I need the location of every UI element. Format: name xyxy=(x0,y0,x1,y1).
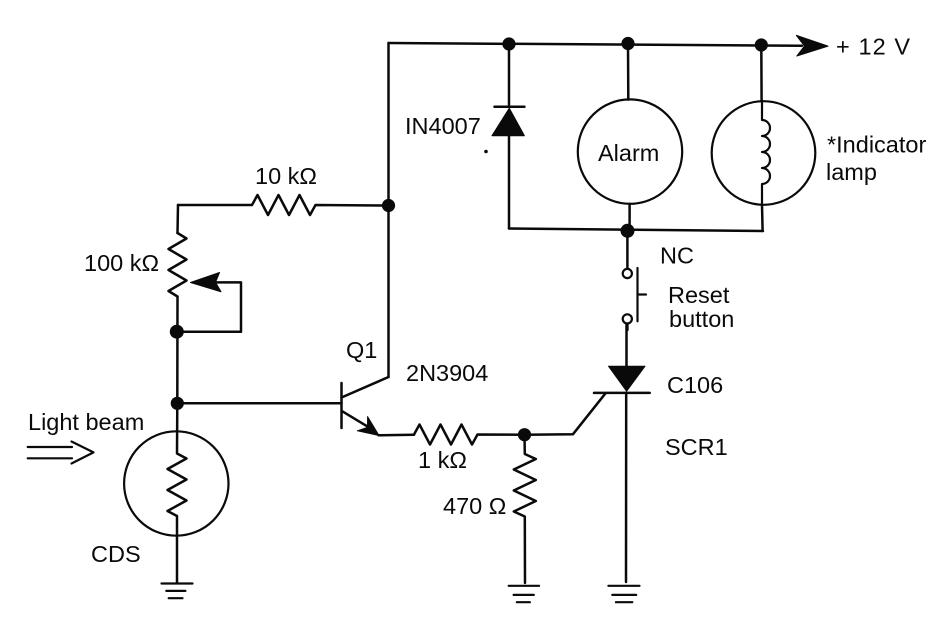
switch reset button xyxy=(626,237,629,269)
node pot bottom junction xyxy=(170,325,184,339)
svg-text:C106: C106 xyxy=(667,372,723,398)
transistor Q1 xyxy=(340,383,343,428)
wire bottom rail xyxy=(509,229,763,232)
node base junction xyxy=(171,397,184,410)
SCR1 C106 xyxy=(625,324,628,368)
node bottom rail junction xyxy=(621,224,635,238)
potentiometer wiper arrow xyxy=(191,273,222,292)
power arrow +12V xyxy=(796,35,828,56)
svg-text:Light beam: Light beam xyxy=(28,409,144,435)
svg-text:10 kΩ: 10 kΩ xyxy=(255,163,317,189)
wire base xyxy=(177,402,341,405)
wire gate xyxy=(525,393,606,435)
wire left column top xyxy=(176,205,179,233)
svg-text:button: button xyxy=(669,306,734,332)
alarm circle xyxy=(578,99,682,203)
ground under 470 xyxy=(509,586,539,602)
diode IN4007 xyxy=(508,44,511,107)
resistor R 10k xyxy=(178,195,389,215)
svg-text:2N3904: 2N3904 xyxy=(406,360,488,386)
svg-text:*Indicator: *Indicator xyxy=(827,132,926,158)
wire emitter to 1k xyxy=(379,434,415,437)
node diode top xyxy=(502,37,515,50)
svg-text:+ 12 V: + 12 V xyxy=(836,34,911,60)
wire main vertical (collector riser) xyxy=(387,43,390,377)
wire left column mid xyxy=(176,297,179,404)
svg-text:470 Ω: 470 Ω xyxy=(443,493,506,519)
svg-text:lamp: lamp xyxy=(826,159,877,185)
speck artifact xyxy=(484,150,488,154)
photocell internal resistor xyxy=(168,403,187,583)
node junction 10k/collector xyxy=(382,199,395,212)
resistor R 470 xyxy=(514,435,536,583)
wire lamp top xyxy=(760,45,763,101)
svg-text:1 kΩ: 1 kΩ xyxy=(418,447,467,473)
wire lamp bottom xyxy=(761,205,764,231)
potentiometer R 100k xyxy=(169,233,187,297)
light beam arrow xyxy=(28,442,94,464)
lamp filament coil xyxy=(762,101,770,204)
svg-text:NC: NC xyxy=(660,243,694,269)
wire wiper feedback loop xyxy=(177,282,241,331)
svg-text:Alarm: Alarm xyxy=(598,140,659,166)
ground under SCR xyxy=(608,586,639,602)
svg-text:Reset: Reset xyxy=(668,282,730,308)
svg-text:Q1: Q1 xyxy=(346,337,377,363)
ground under CDS xyxy=(162,584,193,599)
wire alarm top xyxy=(627,44,630,100)
resistor R 1k xyxy=(414,425,525,445)
svg-text:CDS: CDS xyxy=(91,541,141,567)
svg-text:100 kΩ: 100 kΩ xyxy=(84,250,159,276)
svg-text:SCR1: SCR1 xyxy=(665,434,728,460)
wire alarm bottom xyxy=(628,204,631,229)
node lamp top xyxy=(755,38,768,51)
node alarm top xyxy=(621,37,634,50)
svg-text:IN4007: IN4007 xyxy=(405,113,481,139)
node junction 1k/470/gate xyxy=(518,428,531,441)
wire top +12V rail xyxy=(389,43,803,46)
photocell CDS circle xyxy=(124,431,228,535)
indicator lamp circle xyxy=(712,101,816,205)
